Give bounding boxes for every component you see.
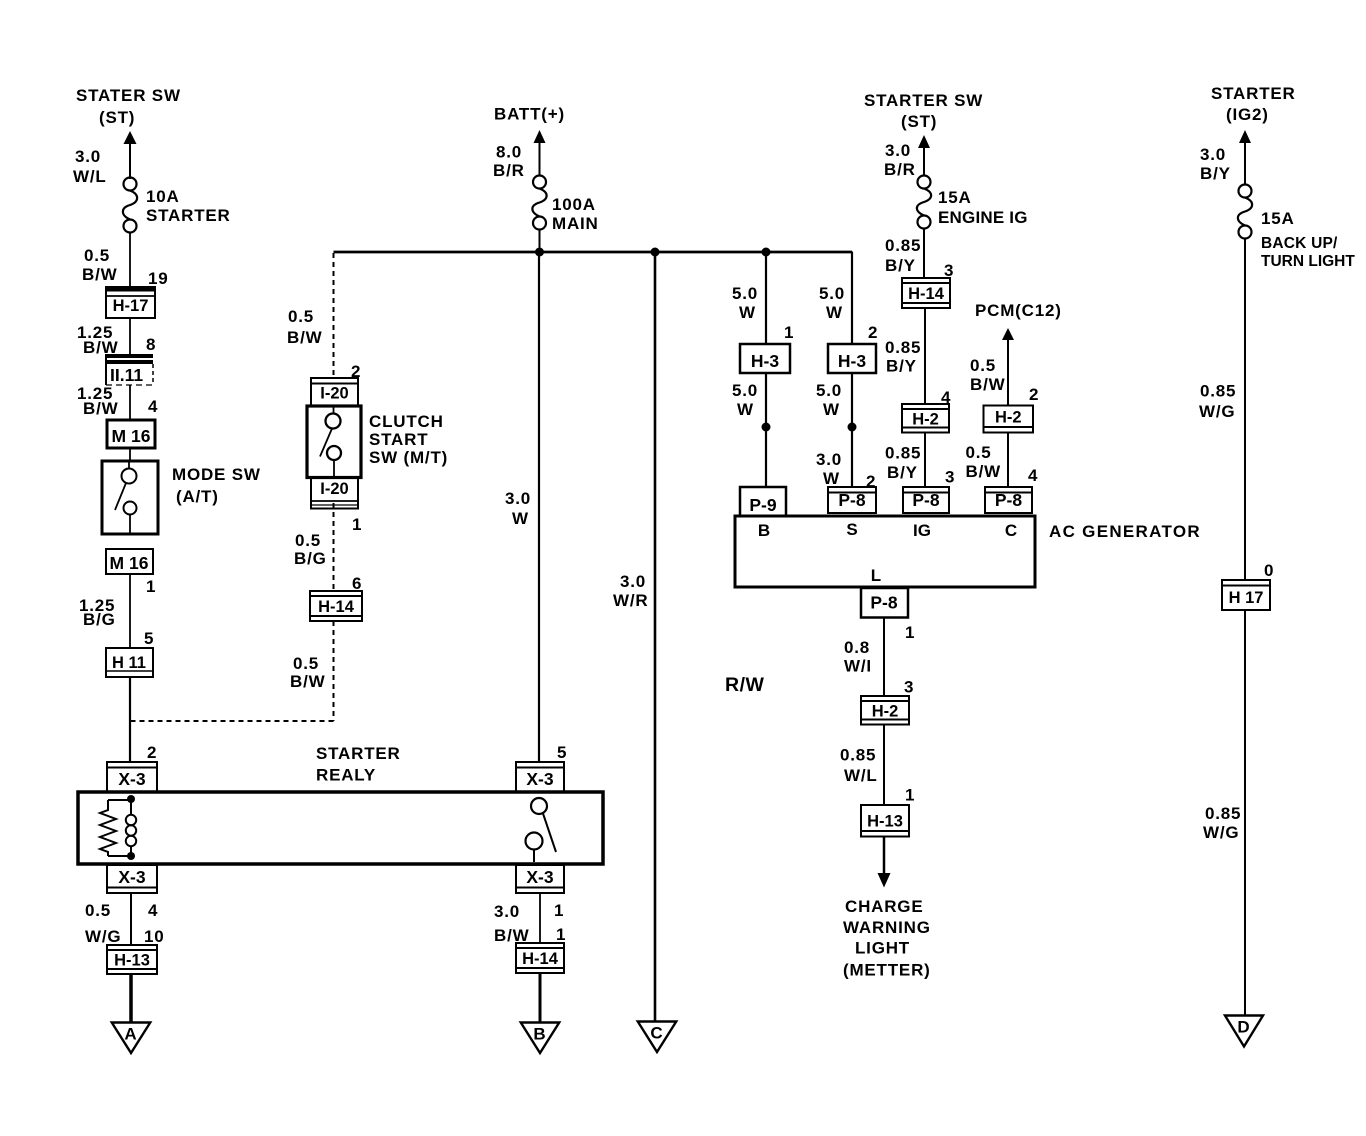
svg-text:H-2: H-2 bbox=[912, 410, 939, 428]
svg-text:B/R: B/R bbox=[493, 161, 525, 180]
svg-text:1: 1 bbox=[554, 901, 564, 920]
svg-text:H-3: H-3 bbox=[751, 351, 779, 371]
power arrow to STARTER (IG2) bbox=[1239, 130, 1251, 185]
svg-text:3.0: 3.0 bbox=[75, 147, 101, 166]
svg-text:B: B bbox=[758, 521, 770, 540]
node PCM(C12) label bbox=[975, 301, 1062, 320]
svg-text:BACK UP/: BACK UP/ bbox=[1261, 235, 1338, 252]
svg-text:2: 2 bbox=[147, 743, 157, 762]
wire value 8.0 B/R bbox=[493, 143, 525, 181]
fuse label 100A MAIN bbox=[552, 195, 599, 233]
power arrow to STATER SW bbox=[124, 131, 137, 179]
svg-text:P-8: P-8 bbox=[995, 490, 1023, 510]
svg-text:X-3: X-3 bbox=[118, 867, 146, 887]
svg-text:1: 1 bbox=[146, 577, 156, 596]
pin 5 bbox=[144, 629, 154, 648]
svg-text:W/G: W/G bbox=[85, 927, 121, 946]
svg-text:0.85: 0.85 bbox=[885, 236, 921, 255]
pin 0 (H 17) bbox=[1264, 561, 1274, 580]
power arrow to PCM bbox=[1002, 328, 1014, 405]
wire bus corner to H-3 (S) bbox=[851, 252, 853, 345]
pin 4 (X-3) bbox=[148, 901, 158, 920]
svg-text:W/G: W/G bbox=[1199, 402, 1235, 421]
svg-text:(A/T): (A/T) bbox=[176, 487, 219, 506]
svg-text:B/W: B/W bbox=[966, 462, 1002, 481]
svg-text:X-3: X-3 bbox=[526, 769, 554, 789]
terminal L bbox=[871, 566, 881, 585]
svg-text:B/W: B/W bbox=[287, 328, 323, 347]
connector II.11 bbox=[106, 354, 153, 385]
connector P-8 (IG) bbox=[903, 487, 949, 513]
wire bus to C bbox=[654, 252, 657, 1022]
pin 3 (H-2 L) bbox=[904, 678, 914, 697]
fuse 15A ENGINE IG bbox=[917, 176, 931, 229]
svg-text:5: 5 bbox=[557, 743, 567, 762]
svg-text:L: L bbox=[871, 566, 881, 585]
wire value 3.0 W/R bbox=[613, 572, 648, 610]
AC generator box bbox=[735, 516, 1035, 587]
pin 2 bbox=[147, 743, 157, 762]
pin 2 (H-3 S) bbox=[868, 323, 878, 342]
svg-text:5.0: 5.0 bbox=[819, 284, 845, 303]
wire value 0.5 B/W (PCM2) bbox=[966, 443, 1002, 481]
svg-text:W/I: W/I bbox=[844, 657, 872, 676]
wire value 0.5 B/W bbox=[82, 246, 118, 284]
wire value 3.0 B/W bbox=[494, 902, 530, 945]
svg-text:B: B bbox=[533, 1025, 545, 1044]
svg-text:4: 4 bbox=[1028, 466, 1038, 485]
svg-text:WARNING: WARNING bbox=[843, 918, 931, 937]
svg-text:P-9: P-9 bbox=[749, 495, 777, 515]
svg-text:100A: 100A bbox=[552, 195, 596, 214]
fuse 10A STARTER bbox=[123, 178, 137, 233]
svg-text:H 11: H 11 bbox=[112, 654, 146, 672]
svg-text:0.85: 0.85 bbox=[885, 338, 921, 357]
node BATT(+) label bbox=[494, 105, 565, 124]
connector P-8 (C) bbox=[985, 487, 1032, 513]
svg-text:0.5: 0.5 bbox=[288, 307, 314, 326]
svg-text:AC GENERATOR: AC GENERATOR bbox=[1049, 522, 1201, 541]
wire H-17 to II.11 bbox=[129, 318, 131, 354]
svg-text:0.5: 0.5 bbox=[966, 443, 992, 462]
wire H-14 to B bbox=[539, 973, 542, 1023]
svg-text:8: 8 bbox=[146, 335, 156, 354]
svg-text:D: D bbox=[1237, 1018, 1249, 1037]
wire H-14 to H-2 (IG) bbox=[924, 308, 926, 404]
wire M16 to H11 bbox=[129, 574, 131, 648]
svg-text:H-2: H-2 bbox=[995, 409, 1022, 427]
svg-text:B/Y: B/Y bbox=[886, 357, 917, 376]
svg-text:3: 3 bbox=[945, 468, 955, 487]
connector H 11 bbox=[106, 648, 153, 677]
clutch start switch box bbox=[307, 406, 361, 478]
wire H-2 to P-8 (C) bbox=[1007, 433, 1009, 488]
terminal IG bbox=[913, 521, 931, 540]
wire P-8 L to H-2 bbox=[883, 618, 885, 697]
svg-text:4: 4 bbox=[148, 901, 158, 920]
svg-text:I-20: I-20 bbox=[320, 385, 348, 403]
svg-text:3.0: 3.0 bbox=[816, 450, 842, 469]
relay coil node bottom bbox=[127, 852, 135, 860]
svg-text:0.5: 0.5 bbox=[970, 356, 996, 375]
wire value 5.0 W (B1) bbox=[732, 284, 758, 322]
connector H-2 (C) bbox=[984, 406, 1034, 433]
wire dashed joining mode switch line bbox=[130, 720, 334, 722]
svg-text:19: 19 bbox=[148, 269, 169, 288]
relay switch bbox=[526, 798, 557, 862]
svg-text:M 16: M 16 bbox=[110, 553, 149, 573]
svg-text:W/L: W/L bbox=[844, 766, 878, 785]
pin 1 bbox=[146, 577, 156, 596]
svg-text:2: 2 bbox=[1029, 385, 1039, 404]
terminal S bbox=[846, 520, 857, 539]
svg-text:B/G: B/G bbox=[294, 549, 327, 568]
svg-text:B/W: B/W bbox=[290, 672, 326, 691]
connector X-3 top left bbox=[107, 762, 157, 792]
svg-text:B/Y: B/Y bbox=[887, 463, 918, 482]
svg-text:0.85: 0.85 bbox=[1200, 382, 1236, 401]
relay resistor bbox=[100, 800, 131, 856]
connector H-13 (charge) bbox=[861, 805, 909, 837]
svg-text:STARTER: STARTER bbox=[146, 206, 231, 225]
pin 1 (H-14) bbox=[556, 925, 566, 944]
pin 1 (P-8 L) bbox=[905, 623, 915, 642]
svg-text:P-8: P-8 bbox=[838, 490, 866, 510]
svg-text:0.85: 0.85 bbox=[885, 444, 921, 463]
wire value 0.5 W/G bbox=[85, 901, 121, 946]
connector H-2 (L) bbox=[861, 696, 909, 725]
junction BATT bbox=[535, 248, 544, 257]
svg-text:W/G: W/G bbox=[1203, 823, 1239, 842]
wire bus to X-3 pin5 bbox=[538, 252, 540, 762]
label R/W bbox=[725, 674, 765, 696]
pin 2 (H-2 C) bbox=[1029, 385, 1039, 404]
svg-text:3: 3 bbox=[904, 678, 914, 697]
svg-text:STATER SW: STATER SW bbox=[76, 86, 181, 105]
svg-text:TURN LIGHT: TURN LIGHT bbox=[1261, 253, 1355, 270]
svg-text:8.0: 8.0 bbox=[496, 143, 522, 162]
svg-text:M 16: M 16 bbox=[112, 426, 151, 446]
connector M 16 upper bbox=[107, 420, 155, 448]
wire value 0.5 B/W (clutch top) bbox=[287, 307, 323, 347]
svg-text:10A: 10A bbox=[146, 187, 180, 206]
svg-text:0.5: 0.5 bbox=[295, 531, 321, 550]
pin 1 (H-3) bbox=[784, 323, 794, 342]
wire value 0.85 B/Y (2) bbox=[885, 338, 921, 376]
svg-text:2: 2 bbox=[866, 472, 876, 491]
svg-text:5.0: 5.0 bbox=[816, 381, 842, 400]
splice S bbox=[848, 423, 857, 432]
svg-text:W: W bbox=[823, 469, 840, 488]
wire II.11 to M16 bbox=[129, 385, 131, 420]
wire value 0.5 B/W (clutch bottom) bbox=[290, 654, 326, 691]
wire H-13 to A bbox=[129, 974, 133, 1023]
wire dashed bus to I-20 bbox=[333, 253, 335, 379]
pin 4 bbox=[148, 397, 158, 416]
svg-text:C: C bbox=[650, 1024, 662, 1043]
svg-text:0: 0 bbox=[1264, 561, 1274, 580]
svg-text:3.0: 3.0 bbox=[505, 489, 531, 508]
svg-text:0.8: 0.8 bbox=[844, 638, 870, 657]
svg-text:A: A bbox=[124, 1025, 136, 1044]
svg-text:1: 1 bbox=[556, 925, 566, 944]
svg-text:B/Y: B/Y bbox=[1200, 164, 1231, 183]
svg-text:B/W: B/W bbox=[970, 375, 1006, 394]
wire fuse to bus bbox=[539, 229, 541, 252]
svg-text:X-3: X-3 bbox=[526, 867, 554, 887]
wire value 3.0 B/R bbox=[884, 141, 916, 179]
svg-text:BATT(+): BATT(+) bbox=[494, 105, 565, 124]
svg-text:4: 4 bbox=[148, 397, 158, 416]
wire X-3 to H-14 right bbox=[539, 893, 541, 943]
svg-text:W: W bbox=[826, 303, 843, 322]
junction B branch bbox=[762, 248, 771, 257]
pin 6 (H-14) bbox=[352, 574, 362, 593]
pin 19 bbox=[148, 269, 169, 288]
label MODE SW (A/T) bbox=[172, 465, 261, 506]
label STARTER REALY bbox=[316, 744, 401, 785]
terminal C bbox=[1005, 521, 1017, 540]
wire H 17 to D bbox=[1244, 610, 1246, 1016]
connector H-3 (B) bbox=[740, 344, 790, 373]
fuse label 15A ENGINE IG bbox=[938, 188, 1028, 227]
svg-text:SW (M/T): SW (M/T) bbox=[369, 448, 448, 467]
svg-text:5.0: 5.0 bbox=[732, 381, 758, 400]
wire value 0.85 W/G (bottom) bbox=[1203, 804, 1241, 842]
pin 1 (I-20) bbox=[352, 515, 362, 534]
svg-text:B/W: B/W bbox=[82, 265, 118, 284]
svg-text:CHARGE: CHARGE bbox=[845, 897, 923, 916]
svg-text:3.0: 3.0 bbox=[1200, 145, 1226, 164]
svg-text:0.5: 0.5 bbox=[293, 654, 319, 673]
wire H-3 to P-9 bbox=[765, 373, 767, 487]
svg-text:3.0: 3.0 bbox=[885, 141, 911, 160]
svg-text:X-3: X-3 bbox=[118, 769, 146, 789]
wire fuse to H-17 bbox=[129, 232, 131, 287]
svg-text:H-17: H-17 bbox=[113, 297, 149, 315]
connector H-14 bottom bbox=[516, 943, 564, 973]
svg-text:(ST): (ST) bbox=[99, 108, 135, 127]
terminal B bbox=[758, 521, 770, 540]
connector X-3 top right bbox=[516, 762, 564, 792]
wire value 3.0 W/L bbox=[73, 147, 107, 186]
svg-text:CLUTCH: CLUTCH bbox=[369, 412, 444, 431]
connector H-13 left bbox=[107, 945, 157, 974]
svg-text:B/W: B/W bbox=[83, 399, 119, 418]
pin 1 (X-3 bottom) bbox=[554, 901, 564, 920]
relay box STARTER REALY bbox=[78, 792, 603, 864]
wire H-13 to charge light bbox=[878, 837, 891, 888]
connector X-3 bottom right bbox=[516, 865, 564, 893]
connector X-3 bottom left bbox=[107, 865, 157, 893]
svg-text:STARTER: STARTER bbox=[1211, 84, 1296, 103]
svg-text:1: 1 bbox=[905, 786, 915, 805]
label AC GENERATOR bbox=[1049, 522, 1201, 541]
pin 4 (H-2 IG) bbox=[941, 388, 951, 407]
bus wire bbox=[334, 251, 853, 254]
wire X-3 to H-13 bbox=[130, 893, 132, 945]
node STARTER (IG2) label bbox=[1211, 84, 1296, 124]
relay coil bbox=[126, 799, 136, 856]
power arrow to STARTER SW right bbox=[918, 135, 930, 176]
wire value 0.5 B/W (PCM1) bbox=[970, 356, 1006, 394]
wire value 0.85 B/Y (1) bbox=[885, 236, 921, 275]
svg-text:(METTER): (METTER) bbox=[843, 961, 931, 980]
connector P-8 (L) bbox=[861, 588, 908, 618]
wire H11 to X-3 pin2 bbox=[129, 677, 131, 762]
svg-text:H 17: H 17 bbox=[1229, 589, 1264, 607]
pin 2 (P-8 S) bbox=[866, 472, 876, 491]
svg-text:I-20: I-20 bbox=[320, 480, 348, 498]
svg-text:1: 1 bbox=[352, 515, 362, 534]
svg-text:2: 2 bbox=[868, 323, 878, 342]
wire value 5.0 W (S1) bbox=[819, 284, 845, 322]
fuse 15A BACK UP/TURN LIGHT bbox=[1238, 185, 1252, 239]
wire value 0.8 W/I bbox=[844, 638, 872, 676]
svg-text:H-2: H-2 bbox=[872, 702, 899, 720]
svg-text:W: W bbox=[739, 303, 756, 322]
svg-text:R/W: R/W bbox=[725, 674, 765, 696]
connector M 16 lower bbox=[106, 549, 153, 574]
wire value 0.85 W/L bbox=[840, 746, 878, 786]
svg-text:II.11: II.11 bbox=[110, 365, 143, 385]
svg-text:3.0: 3.0 bbox=[494, 902, 520, 921]
wire value 1.25 B/W (2) bbox=[77, 384, 119, 418]
connector arrow A bbox=[112, 1023, 151, 1054]
junction C branch bbox=[651, 248, 660, 257]
svg-text:3.0: 3.0 bbox=[620, 572, 646, 591]
pin 2 (I-20) bbox=[351, 362, 361, 381]
svg-text:P-8: P-8 bbox=[912, 490, 940, 510]
pin 5 (X-3) bbox=[557, 743, 567, 762]
pin 3 (H-14 IG) bbox=[944, 261, 954, 280]
svg-text:H-14: H-14 bbox=[908, 285, 945, 303]
node STATER SW (ST) label bbox=[76, 86, 181, 127]
svg-text:S: S bbox=[846, 520, 857, 539]
svg-text:1: 1 bbox=[784, 323, 794, 342]
svg-text:0.85: 0.85 bbox=[1205, 804, 1241, 823]
svg-text:15A: 15A bbox=[1261, 209, 1295, 228]
svg-text:B/G: B/G bbox=[83, 610, 116, 629]
wire dashed H-14 down bbox=[333, 621, 335, 721]
connector H 17 bbox=[1222, 580, 1270, 610]
wire fuse to H 17 bbox=[1244, 238, 1246, 580]
svg-text:0.85: 0.85 bbox=[840, 746, 876, 765]
pin 4 (P-8 C) bbox=[1028, 466, 1038, 485]
connector arrow D bbox=[1225, 1016, 1263, 1047]
connector arrow C bbox=[638, 1022, 677, 1053]
svg-text:15A: 15A bbox=[938, 188, 972, 207]
svg-text:LIGHT: LIGHT bbox=[855, 939, 910, 958]
svg-text:ENGINE IG: ENGINE IG bbox=[938, 208, 1028, 227]
mode switch MODE SW (A/T) bbox=[102, 461, 158, 534]
svg-text:H-13: H-13 bbox=[114, 952, 150, 970]
connector P-9 bbox=[740, 487, 786, 516]
label CHARGE WARNING LIGHT (METTER) bbox=[843, 897, 931, 980]
svg-text:W: W bbox=[512, 509, 529, 528]
svg-text:IG: IG bbox=[913, 521, 931, 540]
svg-text:0.5: 0.5 bbox=[85, 901, 111, 920]
power arrow to BATT(+) bbox=[534, 130, 546, 176]
svg-text:(ST): (ST) bbox=[901, 112, 937, 131]
wire M16 to MODE SW bbox=[129, 448, 131, 461]
node STARTER SW (ST) right label bbox=[864, 91, 983, 131]
wire H-2 to H-13 bbox=[883, 725, 885, 806]
svg-text:W: W bbox=[823, 400, 840, 419]
connector H-14 clutch bbox=[310, 591, 362, 621]
svg-text:H-3: H-3 bbox=[838, 351, 866, 371]
svg-text:0.5: 0.5 bbox=[84, 246, 110, 265]
connector arrow B bbox=[521, 1023, 560, 1054]
fuse label 10A STARTER bbox=[146, 187, 231, 225]
wire H-2 to P-8 (IG) bbox=[924, 433, 926, 488]
wire dashed I-20 to H-14 bbox=[333, 503, 335, 591]
pin 8 bbox=[146, 335, 156, 354]
wire value 0.85 W/G (top) bbox=[1199, 382, 1236, 422]
svg-text:MODE SW: MODE SW bbox=[172, 465, 261, 484]
wire value 3.0 W (S3) bbox=[816, 450, 842, 488]
svg-text:P-8: P-8 bbox=[870, 593, 898, 613]
svg-text:10: 10 bbox=[144, 927, 165, 946]
connector H-17 bbox=[106, 287, 155, 318]
wire value 3.0 B/Y bbox=[1200, 145, 1231, 183]
svg-text:1: 1 bbox=[905, 623, 915, 642]
pin 3 (P-8 IG) bbox=[945, 468, 955, 487]
wire bus to H-3 (B) bbox=[765, 253, 767, 344]
fuse 100A MAIN bbox=[532, 176, 546, 230]
svg-text:5: 5 bbox=[144, 629, 154, 648]
svg-text:5.0: 5.0 bbox=[732, 284, 758, 303]
label CLUTCH START SW (M/T) bbox=[369, 412, 448, 467]
fuse label 15A BACK UP/ TURN LIGHT bbox=[1261, 209, 1355, 270]
connector H-14 (IG) bbox=[902, 278, 950, 308]
connector P-8 (S) bbox=[828, 487, 876, 513]
svg-text:START: START bbox=[369, 430, 428, 449]
pin 10 (H-13) bbox=[144, 927, 165, 946]
relay coil node top bbox=[127, 795, 135, 803]
connector H-3 (S) bbox=[828, 344, 876, 373]
wire H-3 to P-8 (S) bbox=[851, 373, 853, 487]
svg-text:REALY: REALY bbox=[316, 766, 376, 785]
wire value 5.0 W (B2) bbox=[732, 381, 758, 419]
wire value 5.0 W (S2) bbox=[816, 381, 842, 419]
svg-text:B/Y: B/Y bbox=[885, 256, 916, 275]
wire fuse to H-14 (IG) bbox=[923, 228, 925, 278]
svg-text:C: C bbox=[1005, 521, 1017, 540]
wire value 0.5 B/G bbox=[294, 531, 327, 568]
connector I-20 top bbox=[311, 378, 358, 406]
wire value 0.85 B/Y (3) bbox=[885, 444, 921, 483]
pin 1 (H-13) bbox=[905, 786, 915, 805]
svg-text:H-14: H-14 bbox=[318, 598, 355, 616]
svg-text:STARTER: STARTER bbox=[316, 744, 401, 763]
connector H-2 (IG) bbox=[902, 404, 949, 433]
wire value 1.25 B/G bbox=[79, 596, 116, 629]
svg-text:PCM(C12): PCM(C12) bbox=[975, 301, 1062, 320]
svg-text:W: W bbox=[737, 400, 754, 419]
svg-text:B/R: B/R bbox=[884, 160, 916, 179]
svg-text:W/R: W/R bbox=[613, 591, 648, 610]
svg-text:W/L: W/L bbox=[73, 167, 107, 186]
wire value 3.0 W bbox=[505, 489, 531, 528]
svg-text:H-13: H-13 bbox=[867, 813, 903, 831]
splice B bbox=[762, 423, 771, 432]
wire value 1.25 B/W bbox=[77, 323, 119, 357]
svg-text:(IG2): (IG2) bbox=[1226, 105, 1269, 124]
svg-text:MAIN: MAIN bbox=[552, 214, 599, 233]
connector I-20 bottom bbox=[311, 478, 358, 509]
svg-text:STARTER SW: STARTER SW bbox=[864, 91, 983, 110]
